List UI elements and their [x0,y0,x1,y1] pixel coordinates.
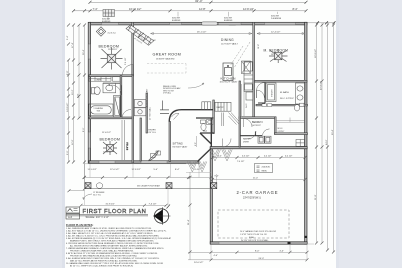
svg-text:SCALE: 1/4" = 1'-0": SCALE: 1/4" = 1'-0" [86,215,109,219]
bath1 door arc [112,85,122,95]
svg-text:11'6"X11'0": 11'6"X11'0" [108,49,118,51]
svg-text:W/ 24'0" DIR FLTR TO FDN WALL: W/ 24'0" DIR FLTR TO FDN WALL [241,239,269,242]
master toilet [294,103,304,111]
garage bottom wall [210,242,307,244]
left wall window bedroom1 [89,44,91,59]
front door sidelight boxes [151,151,161,158]
porch dim extension to left column [69,190,85,192]
svg-text:10'-2": 10'-2" [72,89,74,95]
title underline [66,215,148,216]
garage / house wall [210,147,307,149]
svg-text:7'-4": 7'-4" [93,7,98,11]
svg-text:9'-8": 9'-8" [77,93,79,98]
hall east wall [132,75,134,163]
mud bench [296,140,305,147]
svg-text:5'-4 1/2": 5'-4 1/2" [125,57,127,65]
dining window sill mark [229,23,236,25]
right dim connector line [306,22,335,24]
svg-text:42" HIGH WALL: 42" HIGH WALL [149,107,152,120]
svg-text:PANEL: PANEL [262,170,267,173]
garage left wall [210,147,212,244]
sheet right edge shade [336,0,339,268]
wic west wall [239,81,241,147]
svg-text:9'4"X5'6": 9'4"X5'6" [278,131,285,133]
bedroom2 closet shelves [122,120,129,160]
bedroom1 right wall [132,22,134,75]
wic rods [277,118,305,123]
laundry north wall [240,135,262,137]
short drop lines from walls to bottom dims [85,164,308,261]
porch column 1 [85,183,91,189]
bath1 shower stall [114,96,121,118]
laundry rotated note column [146,88,152,120]
svg-text:8'-4": 8'-4" [293,7,298,11]
corner fireplace [126,25,154,45]
svg-text:18'-8 1/2": 18'-8 1/2" [315,49,317,58]
top dimension row 1 [90,1,306,3]
left dim vertical lines [69,25,85,188]
porch post marker circle [96,183,102,189]
top dimension row 1 ticks [89,1,308,4]
hall south wall [182,109,215,111]
garage door opening [219,242,289,244]
svg-text:40'-8 1/2": 40'-8 1/2" [321,81,323,90]
bath1 vanity [103,83,116,93]
pantry/stair block [202,102,231,111]
garage bottom dim row 2 [188,259,307,261]
svg-text:12'-0": 12'-0" [72,139,74,145]
svg-text:BEDROOM: BEDROOM [100,138,121,142]
master vanity [296,83,306,104]
corner art niche diamond [96,27,105,36]
svg-text:SLAB: SLAB [249,236,254,239]
left exterior wall [88,22,90,163]
ridge beam leader note [93,192,105,197]
svg-text:8'-4": 8'-4" [175,169,180,171]
svg-text:60'-4": 60'-4" [332,129,334,135]
svg-text:36'-4": 36'-4" [83,49,85,55]
hall door arc [122,110,131,119]
svg-text:8'0" CLG: 8'0" CLG [149,132,157,134]
master bedroom south wall [255,80,308,82]
bottom-left dim line [84,177,211,179]
svg-text:24'-0" GARAGE OVHD DOOR FTG. B: 24'-0" GARAGE OVHD DOOR FTG. BELOW [240,230,276,233]
ceiling fan master [269,49,288,63]
left wall window bedroom2 [89,132,91,148]
svg-text:2-CAR GARAGE: 2-CAR GARAGE [237,190,279,195]
svg-text:4'-0 X 4'-0: 4'-0 X 4'-0 [108,33,116,35]
svg-text:5'-4": 5'-4" [67,35,69,40]
garage bottom dim row 1 [188,251,307,253]
svg-text:21'-4": 21'-4" [253,178,258,180]
svg-text:8'-0": 8'-0" [255,251,260,253]
svg-text:M. BATH: M. BATH [280,91,289,94]
svg-text:12'-8": 12'-8" [199,7,206,11]
svg-text:24'-0": 24'-0" [259,258,265,260]
svg-text:200A ELEC: 200A ELEC [262,166,272,169]
kitchen counter east [244,62,253,101]
bath1 soaking tub [89,104,113,116]
svg-text:16'X18'9" VAULTED: 16'X18'9" VAULTED [156,57,175,60]
porch column 2 [166,183,172,189]
kitchen island [223,63,233,81]
entry steps chevrons [188,150,233,173]
window openings in top wall [102,23,296,25]
svg-text:BEDRM 3: BEDRM 3 [252,121,263,124]
svg-text:26'-1 1/2": 26'-1 1/2" [197,32,206,34]
garage dim texts [218,156,293,158]
bath1 / bedroom2 wall [89,117,134,119]
svg-text:9'-0": 9'-0" [195,142,197,146]
svg-text:12'-4 1/2": 12'-4 1/2" [271,32,280,34]
entry/sitting west wall [169,122,171,162]
svg-text:16'-10 1/2": 16'-10 1/2" [129,7,141,11]
right dim rotated texts [315,49,334,200]
hall middle wall [213,100,215,134]
top dimension row 2 [74,10,307,12]
svg-text:5'-4": 5'-4" [154,169,159,171]
bath2 fixtures [201,120,214,131]
svg-text:FLOOR PLAN NOTES:: FLOOR PLAN NOTES: [66,223,94,227]
svg-text:8'-8": 8'-8" [67,70,69,75]
legend texts [262,166,272,173]
right exterior wall [305,22,307,244]
svg-text:PANTRY: PANTRY [217,106,225,109]
right dim vertical lines [317,23,334,252]
svg-text:BEDROOM: BEDROOM [99,45,120,49]
linen nook dining [242,61,251,74]
detail reference boxes [66,207,80,219]
washer dryer stack [134,100,146,116]
svg-text:W.I.C.: W.I.C. [278,128,284,130]
bedroom3 door arc [244,119,253,128]
svg-text:4'-0": 4'-0" [280,251,285,253]
bath1 vanity wall [103,82,121,84]
svg-text:17'-4": 17'-4" [72,42,74,48]
svg-text:6'-0": 6'-0" [67,150,69,155]
svg-text:W.I.C.: W.I.C. [246,103,248,108]
bath1 hall wall [120,75,122,118]
garage dim ticks [211,156,307,159]
svg-text:FIRST FLOOR PLAN: FIRST FLOOR PLAN [83,209,147,215]
garage door jamb dot [288,242,291,245]
wic south wall [275,133,308,135]
svg-text:LINEN: LINEN [96,79,102,81]
svg-text:7'-4 1/2": 7'-4 1/2" [237,161,245,163]
ridge beam leader arrow [83,194,92,200]
svg-text:12'-8 1/2": 12'-8 1/2" [243,7,254,11]
foyer door leaf [172,113,180,119]
svg-text:4'-4 1/2": 4'-4 1/2" [264,156,272,158]
svg-text:AT 24" O.C. VERIFY W/ LOCAL JU: AT 24" O.C. VERIFY W/ LOCAL JURISDICTION… [70,265,134,268]
garage slab dashed outline [218,210,289,238]
electrical legend box [255,164,273,173]
entry corner vertical [210,118,212,148]
svg-text:DRYER: DRYER [243,141,250,143]
laundry west partition [255,132,257,136]
porch side lines [85,164,217,189]
laundry pair near garage [258,136,271,143]
svg-text:31'-8": 31'-8" [315,194,317,200]
basement stair hatch [222,113,240,127]
linen closet [89,77,120,82]
svg-text:DINING: DINING [221,38,234,42]
svg-text:(VLT. TO): (VLT. TO) [93,195,101,197]
bath2 south wall [200,132,214,134]
chimney hatch box above wall [103,10,115,17]
svg-text:W.I.C. 9'4"X5'0": W.I.C. 9'4"X5'0" [280,98,294,100]
left dim rotated texts [67,43,81,107]
svg-text:8'-0": 8'-0" [83,127,85,132]
north arrow [153,205,171,225]
mbath door arcs [257,83,265,99]
hall cased opening [160,101,169,114]
garage mid dim row [213,179,306,181]
master bedroom interior dim [257,33,305,35]
svg-text:SITTING: SITTING [173,142,183,146]
svg-text:10'10"X12'9" VAULT: 10'10"X12'9" VAULT [220,81,239,84]
title area dim line [81,204,166,206]
windows in bottom wall [99,161,167,163]
front door leaf [148,151,159,162]
right dim ticks [315,24,335,254]
right wall jamb marker [304,236,307,238]
extra porch line [186,172,211,174]
hall2 east wall [140,118,142,161]
wic shelves [242,84,245,116]
dining vault dashed lines [230,42,250,68]
svg-text:BA.2: BA.2 [203,130,207,133]
bedroom1 door arc [123,65,134,76]
bedroom1 bottom wall [89,75,134,77]
bottom wall bedroom2/sitting [89,161,199,163]
svg-text:32'-4": 32'-4" [195,0,203,3]
laundry door arc [263,129,270,136]
porch back edge line [84,163,186,165]
great room interior dim [151,33,253,35]
porch beam front line [84,188,217,190]
kitchen note with leader [163,85,181,95]
svg-text:9'-4": 9'-4" [215,175,219,177]
svg-text:1'-6"X8" THICK FTG. AT O.H. DR: 1'-6"X8" THICK FTG. AT O.H. DR [240,233,267,236]
bottom-left dim ticks [83,176,213,179]
bath1 toilet [92,87,101,95]
svg-text:6'-4": 6'-4" [218,156,222,158]
svg-text:A-6: A-6 [68,215,73,219]
svg-text:11'2"X10'9" VAULT: 11'2"X10'9" VAULT [221,43,239,46]
sitting bay dim line [196,136,198,147]
wic east wall [275,117,277,135]
svg-text:6'-10": 6'-10" [195,169,201,171]
svg-text:4'-4 1/2": 4'-4 1/2" [285,156,293,158]
porch column 3 [211,183,217,189]
entry bay diagonal lower (front door) [198,149,212,162]
ceiling fan bedroom1 [101,48,123,70]
kitchen note leader arrow [188,83,204,88]
svg-text:GREAT ROOM: GREAT ROOM [153,53,182,57]
svg-text:24'-0 1/2": 24'-0 1/2" [194,262,203,264]
master shower [266,83,276,102]
top dimension row 2 ticks [72,9,308,12]
svg-text:11'-6 1/2": 11'-6 1/2" [102,132,111,134]
bedroom3 north wall [239,117,276,119]
hall closet door arcs center [223,131,257,147]
laundry east wall [146,93,148,133]
bottom-left dim text row [88,169,201,171]
svg-text:4'-0": 4'-0" [214,255,219,257]
bath2 top wall [196,117,214,119]
notes body [66,227,172,268]
svg-text:2-EGRESS: 2-EGRESS [271,18,282,20]
svg-text:8'4"X10'0" VAULT: 8'4"X10'0" VAULT [173,146,189,149]
top exterior wall [90,22,307,25]
svg-text:6X6 CEDAR PORCH BEAM: 6X6 CEDAR PORCH BEAM [137,185,160,188]
kitchen/dining west wall [253,22,255,117]
entry bay diagonal upper [200,133,211,144]
svg-text:SHOWER: SHOWER [271,89,273,97]
svg-text:LAUNDRY CHUTE ABV: LAUNDRY CHUTE ABV [146,88,149,108]
svg-text:31'-8 1/2": 31'-8 1/2" [106,204,115,206]
svg-text:12'-0 1/2": 12'-0 1/2" [88,169,97,171]
svg-text:44'-0": 44'-0" [326,139,328,145]
svg-text:7'-3 1/2": 7'-3 1/2" [149,204,157,206]
svg-text:EGRESS: EGRESS [224,20,233,22]
garage slab notes [240,230,276,242]
mbath/wic divider [258,82,265,103]
svg-text:31'-4": 31'-4" [188,219,190,225]
svg-text:10'0"X11'6": 10'0"X11'6" [252,125,261,127]
sliding glass door symbol top wall [202,22,218,25]
svg-text:12'-0 1/2": 12'-0 1/2" [110,169,119,171]
left dim ticks [67,24,86,191]
window mullion lines [102,23,296,25]
svg-text:14'-8 1/2": 14'-8 1/2" [67,103,69,112]
svg-text:(TYP. ALL): (TYP. ALL) [163,92,171,95]
svg-text:23'4"X25'8"(W.I.): 23'4"X25'8"(W.I.) [243,197,261,200]
foyer curved wall [169,110,181,122]
window center drop lines [108,12,278,20]
svg-text:EGRESS: EGRESS [172,20,181,22]
svg-text:14'-8": 14'-8" [258,44,260,49]
sheet left edge shade [62,0,65,268]
white drawing sheet [64,0,337,268]
garage bottom dim extension [307,243,314,245]
garage top interior dim row [213,157,306,159]
garage west dim vertical [189,172,191,260]
master bath south wall with pocket door [256,104,308,106]
svg-text:4'-6 1/2": 4'-6 1/2" [242,156,250,158]
great room vault dashes [147,64,186,74]
svg-text:5'-0" CLO: 5'-0" CLO [127,142,129,150]
ceiling fan bedroom2 [103,141,117,155]
